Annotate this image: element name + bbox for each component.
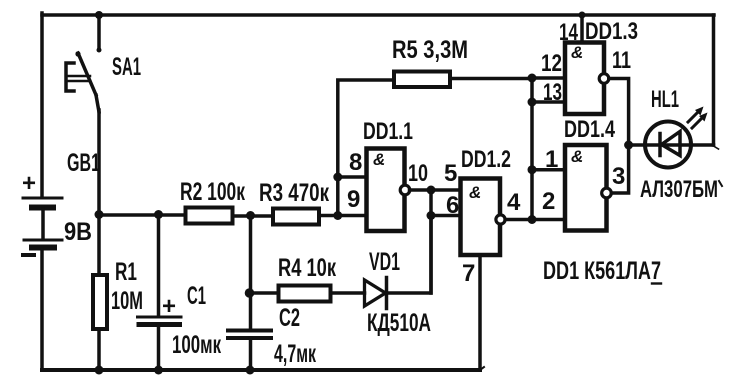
svg-text:КД510А: КД510А bbox=[367, 309, 431, 337]
svg-text:7: 7 bbox=[462, 260, 475, 287]
svg-text:&: & bbox=[469, 183, 481, 202]
svg-text:HL1: HL1 bbox=[651, 86, 679, 113]
node pin8 junction bbox=[333, 173, 342, 182]
resistor R4 bbox=[278, 254, 336, 302]
wire R4 to VD1 bbox=[331, 291, 365, 295]
wire pin 12 bbox=[532, 76, 565, 80]
svg-text:R4 10к: R4 10к bbox=[278, 254, 336, 282]
svg-text:13: 13 bbox=[543, 79, 562, 106]
node R2 branch bbox=[95, 210, 104, 219]
battery GB1 bbox=[22, 149, 100, 255]
wire pin5 node down bbox=[429, 190, 433, 216]
svg-text:GB1: GB1 bbox=[67, 149, 100, 177]
wire bottom rail bbox=[42, 368, 480, 372]
wire pin7 end hook bbox=[480, 367, 484, 370]
svg-text:+: + bbox=[162, 293, 176, 320]
LED HL1 bbox=[640, 86, 722, 203]
wire output 4 to pin 2 bbox=[505, 218, 565, 222]
wire pin 6 bbox=[431, 214, 461, 218]
node DD1.2 output circle bbox=[496, 215, 505, 224]
svg-text:10: 10 bbox=[408, 160, 428, 187]
node C1 bottom bbox=[154, 366, 163, 375]
svg-text:DD1.3: DD1.3 bbox=[585, 18, 638, 45]
svg-text:С1: С1 bbox=[187, 282, 206, 310]
logic gate DD1.4 bbox=[564, 116, 615, 231]
wire output 10 to pin 5 bbox=[410, 188, 461, 192]
svg-text:11: 11 bbox=[612, 47, 631, 74]
svg-text:9В: 9В bbox=[64, 218, 92, 246]
wire to LED bbox=[629, 143, 714, 147]
svg-text:&: & bbox=[571, 147, 583, 166]
svg-text:3: 3 bbox=[612, 163, 625, 190]
wire output 11 bbox=[609, 79, 629, 146]
svg-text:12: 12 bbox=[541, 50, 562, 77]
svg-text:R5 3,3М: R5 3,3М bbox=[392, 36, 468, 64]
wire junction down to R4 bbox=[249, 216, 253, 294]
svg-text:R3 470к: R3 470к bbox=[259, 179, 329, 207]
node pin13 junction bbox=[528, 98, 537, 107]
svg-text:9: 9 bbox=[347, 186, 360, 213]
svg-text:2: 2 bbox=[542, 188, 555, 215]
wire corner tick bbox=[714, 146, 719, 149]
wire left rail lower bbox=[40, 249, 44, 370]
wire VD1 to pin6 node bbox=[387, 216, 432, 294]
node R1 bottom bbox=[95, 366, 104, 375]
svg-text:DD1.4: DD1.4 bbox=[564, 116, 615, 143]
wire node to R2 bbox=[99, 213, 186, 217]
svg-text:АЛ307БМ: АЛ307БМ bbox=[640, 176, 718, 203]
logic gate DD1.3 bbox=[565, 18, 638, 114]
svg-text:DD1 К561ЛА7: DD1 К561ЛА7 bbox=[543, 257, 661, 285]
wire SA1 to R1 bbox=[97, 110, 101, 275]
wire pin 1 bbox=[532, 168, 565, 172]
wire pin6 node down to VD1 bbox=[429, 216, 433, 294]
capacitor C1 bbox=[138, 215, 222, 371]
svg-text:5: 5 bbox=[444, 160, 457, 187]
node pin14 top bbox=[579, 12, 586, 19]
resistor R1 bbox=[93, 258, 143, 329]
svg-text:R2 100к: R2 100к bbox=[180, 178, 245, 206]
wire R1 to bottom rail bbox=[97, 329, 101, 370]
svg-text:&: & bbox=[571, 43, 583, 62]
node pin12 junction bbox=[528, 74, 537, 83]
node DD1.4 output circle bbox=[602, 188, 612, 198]
svg-text:DD1.1: DD1.1 bbox=[363, 118, 413, 145]
node C1 top bbox=[154, 210, 163, 219]
wire R3 to DD1.1 pin 9 bbox=[319, 214, 367, 218]
node R4 C2 junction bbox=[245, 288, 255, 298]
svg-text:6: 6 bbox=[446, 192, 459, 219]
diode VD1 bbox=[365, 248, 432, 337]
svg-text:SA1: SA1 bbox=[112, 53, 141, 81]
switch SA1 bbox=[66, 48, 141, 113]
resistor R2 bbox=[180, 178, 245, 224]
node DD1.1 output circle bbox=[400, 185, 410, 195]
node pin9 junction bbox=[333, 211, 342, 220]
wire pin 13 bbox=[532, 100, 565, 104]
node LED junction bbox=[624, 141, 633, 150]
wire left rail upper bbox=[40, 13, 44, 196]
wire R5 right to pin12 node bbox=[450, 77, 532, 81]
node DD1.3 output circle bbox=[599, 74, 609, 84]
svg-text:8: 8 bbox=[349, 149, 362, 176]
svg-text:4: 4 bbox=[507, 189, 521, 216]
svg-text:10М: 10М bbox=[111, 287, 143, 315]
resistor R5 bbox=[392, 36, 468, 87]
node pin2 junction bbox=[528, 215, 537, 224]
wire junction to R4 bbox=[250, 291, 279, 295]
node pin6 junction bbox=[427, 211, 436, 220]
wire right rail bbox=[712, 15, 716, 145]
node pin5 junction bbox=[427, 186, 436, 195]
wire pin 14 from top rail bbox=[580, 15, 584, 43]
logic gate DD1.2 bbox=[461, 146, 512, 255]
svg-text:VD1: VD1 bbox=[369, 248, 400, 276]
svg-text:R1: R1 bbox=[115, 258, 137, 286]
capacitor C2 bbox=[228, 293, 316, 370]
svg-text:4,7мк: 4,7мк bbox=[274, 340, 316, 368]
wire pin2 node up to pin12 bbox=[530, 78, 534, 220]
svg-text:1: 1 bbox=[545, 146, 558, 173]
logic gate DD1.1 bbox=[363, 118, 413, 231]
wire R2 to R3 bbox=[233, 214, 274, 218]
svg-text:100мк: 100мк bbox=[172, 331, 221, 359]
wire pin 8 bbox=[338, 175, 367, 179]
wire output 3 bbox=[611, 145, 628, 193]
resistor R3 bbox=[259, 179, 329, 225]
node pin1 junction bbox=[528, 165, 537, 174]
svg-text:DD1.2: DD1.2 bbox=[461, 146, 511, 173]
wire top rail bbox=[42, 13, 714, 17]
node SA1 top bbox=[95, 11, 103, 19]
wire SA1 drop from top rail bbox=[97, 15, 101, 49]
svg-text:+: + bbox=[22, 170, 36, 197]
svg-text:С2: С2 bbox=[279, 304, 300, 332]
svg-text:&: & bbox=[373, 150, 385, 169]
wire pin 7 to bottom rail bbox=[478, 255, 482, 370]
node C2 bottom bbox=[246, 366, 255, 375]
wire R5 feedback left bbox=[338, 80, 394, 216]
node R2 R3 junction bbox=[246, 211, 255, 220]
